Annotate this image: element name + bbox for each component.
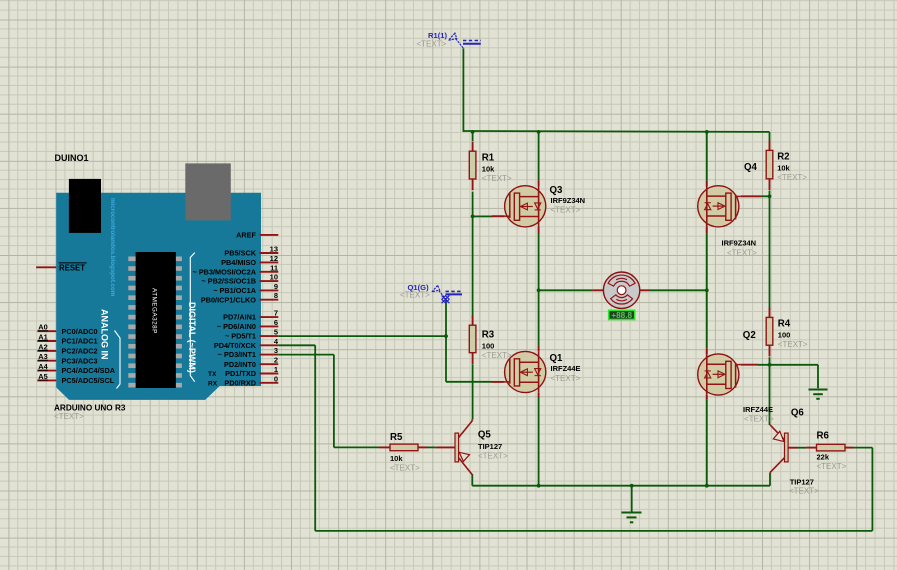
junction <box>768 194 772 198</box>
svg-text:<TEXT>: <TEXT> <box>478 451 508 460</box>
motor rpm display +88.8 <box>609 310 635 320</box>
svg-text:10k: 10k <box>777 164 790 173</box>
label Q6 value <box>790 477 814 486</box>
svg-text:PB4/MISO: PB4/MISO <box>221 258 256 267</box>
svg-text:A4: A4 <box>38 362 48 371</box>
label Q1 <box>550 353 564 364</box>
svg-text:11: 11 <box>270 263 278 272</box>
ground bottom <box>622 513 642 523</box>
svg-text:22k: 22k <box>817 453 830 462</box>
wire R3 bottom to Q5 collector <box>472 364 474 419</box>
svg-text:PC2/ADC2: PC2/ADC2 <box>62 347 98 356</box>
svg-text:<TEXT>: <TEXT> <box>727 249 757 258</box>
svg-text:<TEXT>: <TEXT> <box>54 412 84 421</box>
svg-text:R1: R1 <box>482 153 495 164</box>
arduino pin 4 PD4/T0/XCK <box>214 337 279 350</box>
resistor R2 10k <box>766 141 807 190</box>
svg-text:13: 13 <box>270 245 278 254</box>
junction <box>705 288 709 292</box>
junction <box>537 130 541 134</box>
svg-text:R2: R2 <box>777 152 789 163</box>
junction <box>705 130 709 134</box>
label arduino <TEXT> <box>54 412 84 421</box>
svg-text:R6: R6 <box>817 431 830 442</box>
junction <box>630 484 634 488</box>
wire pin4 wire <box>278 344 315 346</box>
svg-text:10: 10 <box>270 273 278 282</box>
svg-text:<TEXT>: <TEXT> <box>789 487 819 496</box>
arduino pin 2 PD2/INT0 <box>224 356 278 369</box>
svg-text:<TEXT>: <TEXT> <box>551 374 581 383</box>
arduino pin AREF AREF <box>236 231 278 240</box>
wire motor rail right <box>650 289 707 291</box>
junction <box>471 215 475 219</box>
svg-text:A0: A0 <box>38 323 47 332</box>
wire Q4 gate to R2 line <box>761 195 770 197</box>
arduino pin A4 PC4/ADC4/SDA <box>37 362 115 375</box>
svg-text:A1: A1 <box>38 332 47 341</box>
label Q1 <TEXT> <box>551 374 581 383</box>
arduino pin 10 ~ PB2/SS/OC1B <box>201 273 278 286</box>
svg-text:ATMEGA328P: ATMEGA328P <box>151 288 158 334</box>
svg-text:~ PB1/OC1A: ~ PB1/OC1A <box>213 286 257 295</box>
svg-text:<TEXT>: <TEXT> <box>778 340 808 349</box>
svg-text:<TEXT>: <TEXT> <box>400 290 430 299</box>
svg-text:10k: 10k <box>482 165 495 174</box>
svg-text:R5: R5 <box>390 432 403 443</box>
arduino digital bracket <box>190 253 195 382</box>
wire top rail <box>463 130 769 133</box>
arduino pin 3 ~ PD3/INT1 <box>218 346 279 359</box>
arduino power jack <box>69 179 101 233</box>
wire motor rail down to Q2 <box>706 290 708 348</box>
wire gate wire to ground <box>817 365 819 388</box>
label Q1 value <box>551 364 581 373</box>
probe Q1(G) <box>432 285 462 303</box>
arduino pin 0 PD0/RXD <box>224 374 278 387</box>
svg-text:R3: R3 <box>482 330 495 341</box>
svg-text:DUINO1: DUINO1 <box>55 153 89 163</box>
label Q4 <box>744 162 758 173</box>
svg-text:Q6: Q6 <box>791 408 805 419</box>
wire Q3 gate wire <box>473 215 492 217</box>
arduino TX label <box>208 371 217 378</box>
wire rail to Q4 drain <box>706 132 708 181</box>
svg-text:~ PD5/T1: ~ PD5/T1 <box>225 332 256 341</box>
label Q2 value <box>743 405 773 414</box>
svg-text:8: 8 <box>274 291 278 300</box>
resistor R1 10k <box>469 142 512 191</box>
wire motor rail down to Q1 <box>538 290 540 345</box>
wire pin4 drop <box>314 345 316 531</box>
junction <box>444 334 448 338</box>
label Q2 <TEXT> <box>744 414 774 423</box>
svg-text:DIGITAL (~PWM): DIGITAL (~PWM) <box>187 302 197 373</box>
junction <box>705 484 709 488</box>
wire Q6 emitter to rail <box>769 473 771 486</box>
mosfet Q4 IRF9Z34N <box>698 181 761 234</box>
wire R5 to Q5 base <box>427 446 435 448</box>
arduino RX label <box>208 381 218 388</box>
svg-text:TIP127: TIP127 <box>790 477 814 486</box>
svg-text:Q1: Q1 <box>550 353 564 364</box>
svg-text:PB5/SCK: PB5/SCK <box>224 249 256 258</box>
label Q6 <TEXT> <box>789 487 819 496</box>
arduino pin RESET <box>36 263 87 272</box>
wire probe Q1G vertical <box>445 299 447 382</box>
svg-text:PB0/ICP1/CLKO: PB0/ICP1/CLKO <box>201 295 256 304</box>
label Q3 <TEXT> <box>551 206 581 215</box>
svg-text:PD2/INT0: PD2/INT0 <box>224 360 256 369</box>
svg-text:100: 100 <box>778 331 791 340</box>
svg-text:AREF: AREF <box>236 231 256 240</box>
label probe Q1(G) <box>408 283 430 292</box>
svg-text:microcontrolandos.blogspot.com: microcontrolandos.blogspot.com <box>109 198 116 297</box>
svg-text:<TEXT>: <TEXT> <box>551 206 581 215</box>
svg-text:IRFZ44E: IRFZ44E <box>743 405 773 414</box>
wire R6 right wire <box>854 447 872 449</box>
svg-text:TX: TX <box>208 371 217 378</box>
resistor R4 100 <box>766 308 808 357</box>
svg-text:PC5/ADC5/SCL: PC5/ADC5/SCL <box>62 376 115 385</box>
label Q5 value <box>478 442 502 451</box>
svg-text:IRFZ44E: IRFZ44E <box>551 364 581 373</box>
svg-text:12: 12 <box>270 254 278 263</box>
label Q6 <box>791 408 805 419</box>
resistor R3 100 <box>469 316 512 364</box>
svg-text:ANALOG IN: ANALOG IN <box>100 309 110 360</box>
junction <box>471 130 475 134</box>
arduino pin 1 PD1/TXD <box>225 365 278 378</box>
svg-text:5: 5 <box>274 328 278 337</box>
arduino pin A5 PC5/ADC5/SCL <box>37 372 114 385</box>
svg-text:2: 2 <box>274 356 278 365</box>
svg-text:~ PD6/AIN0: ~ PD6/AIN0 <box>217 322 256 331</box>
wire bottom rail <box>472 485 770 487</box>
wire motor rail left <box>539 289 593 291</box>
svg-text:PC3/ADC3: PC3/ADC3 <box>62 356 98 365</box>
arduino analog bracket <box>115 331 121 389</box>
svg-text:Q4: Q4 <box>744 162 758 173</box>
arduino pin 11 ~ PB3/MOSI/OC2A <box>193 263 279 276</box>
arduino pin A2 PC2/ADC2 <box>37 342 97 355</box>
arduino blue url text <box>109 198 116 297</box>
arduino pin 5 ~ PD5/T1 <box>225 328 278 341</box>
mosfet Q1 IRFZ44E <box>491 346 546 398</box>
transistor Q5 TIP127 <box>435 419 472 475</box>
label Q3 value <box>551 196 586 205</box>
svg-text:PD7/AIN1: PD7/AIN1 <box>223 313 256 322</box>
svg-text:A3: A3 <box>38 352 47 361</box>
svg-text:10k: 10k <box>390 454 403 463</box>
junction <box>537 288 541 292</box>
svg-text:~ PB3/MOSI/OC2A: ~ PB3/MOSI/OC2A <box>193 267 257 276</box>
junction <box>768 363 772 367</box>
svg-text:6: 6 <box>274 318 278 327</box>
probe R1(1) <box>449 33 482 48</box>
svg-text:0: 0 <box>274 374 278 383</box>
wire to R5 <box>334 446 380 448</box>
wire pin3 drop <box>333 355 335 448</box>
svg-text:A5: A5 <box>38 372 47 381</box>
arduino pin A3 PC3/ADC3 <box>37 352 97 365</box>
mosfet Q3 IRF9Z34N <box>492 180 546 234</box>
mosfet Q2 IRFZ44E <box>698 348 758 399</box>
svg-text:PD0/RXD: PD0/RXD <box>224 378 256 387</box>
svg-text:<TEXT>: <TEXT> <box>482 174 512 183</box>
arduino ATmega328 chip U1 <box>128 252 182 388</box>
arduino pin 9 ~ PB1/OC1A <box>213 282 278 295</box>
svg-text:<TEXT>: <TEXT> <box>390 464 420 473</box>
arduino pin 6 ~ PD6/AIN0 <box>217 318 278 331</box>
label probe1 <TEXT> <box>417 40 447 49</box>
ground right <box>809 390 828 399</box>
svg-text:Q2: Q2 <box>743 330 756 341</box>
svg-text:PD4/T0/XCK: PD4/T0/XCK <box>214 341 257 350</box>
svg-text:<TEXT>: <TEXT> <box>817 462 847 471</box>
label Q2 <box>743 330 756 341</box>
arduino pin 12 PB4/MISO <box>221 254 278 267</box>
svg-text:R4: R4 <box>778 319 791 330</box>
svg-text:IRF9Z34N: IRF9Z34N <box>722 239 757 248</box>
resistor R5 10k <box>380 432 427 473</box>
wire R2 top lead <box>769 132 771 142</box>
wire Q4 source to motor rail <box>706 233 708 290</box>
wire Q6 base wire <box>797 447 806 449</box>
wire Q1 gate wire <box>446 381 491 383</box>
wire bottom return line <box>315 530 872 532</box>
svg-text:<TEXT>: <TEXT> <box>777 173 807 182</box>
wire pin3 wire <box>278 354 334 356</box>
svg-text:TIP127: TIP127 <box>478 442 502 451</box>
svg-text:~ PB2/SS/OC1B: ~ PB2/SS/OC1B <box>201 277 256 286</box>
label DUINO1 <box>55 153 89 163</box>
label ARDUINO UNO R3 <box>54 404 126 413</box>
label probe R1(1) <box>428 31 447 40</box>
svg-text:~ PD3/INT1: ~ PD3/INT1 <box>218 350 256 359</box>
wire return rise to R6 <box>871 448 873 531</box>
svg-text:Q5: Q5 <box>478 430 492 441</box>
svg-text:1: 1 <box>274 365 278 374</box>
svg-text:A2: A2 <box>38 342 47 351</box>
label Q4 <TEXT> <box>727 249 757 258</box>
arduino usb connector <box>185 163 231 220</box>
svg-text:<TEXT>: <TEXT> <box>482 351 512 360</box>
wire Q2 source down <box>706 400 708 486</box>
wire pin5 wire <box>278 335 446 337</box>
svg-text:PD1/TXD: PD1/TXD <box>225 369 256 378</box>
wire probe drop to top rail <box>462 48 464 132</box>
arduino pin A1 PC1/ADC1 <box>37 332 97 345</box>
junction <box>537 484 541 488</box>
arduino DIGITAL PWM label <box>187 302 197 373</box>
transistor Q6 TIP127 <box>770 425 797 473</box>
label Q5 <TEXT> <box>478 451 508 460</box>
label Q3 <box>550 185 564 196</box>
svg-text:7: 7 <box>274 309 278 318</box>
arduino pin 8 PB0/ICP1/CLKO <box>201 291 278 304</box>
wire Q3 source to motor rail <box>538 234 540 290</box>
svg-text:RESET: RESET <box>59 263 85 272</box>
wire Q2 gate wire <box>758 364 818 366</box>
wire R1 bottom to R3 top <box>472 192 474 318</box>
arduino ANALOG IN label <box>100 309 110 360</box>
wire R1 top lead <box>472 132 474 141</box>
svg-text:3: 3 <box>274 346 278 355</box>
label Q4 value <box>722 239 757 248</box>
wire R2 bottom to R4 top <box>769 191 771 310</box>
arduino pin 7 PD7/AIN1 <box>223 309 278 322</box>
svg-text:<TEXT>: <TEXT> <box>744 414 774 423</box>
svg-text:100: 100 <box>482 342 495 351</box>
svg-text:+88.8: +88.8 <box>611 311 632 320</box>
arduino pin A0 PC0/ADC0 <box>37 323 97 336</box>
wire R4 bottom to Q6 <box>769 357 771 425</box>
wire rail to Q3 drain <box>538 132 540 180</box>
svg-text:PC1/ADC1: PC1/ADC1 <box>62 337 98 346</box>
svg-text:<TEXT>: <TEXT> <box>417 40 447 49</box>
wire ground drop <box>631 486 633 512</box>
arduino pin 13 PB5/SCK <box>224 245 278 258</box>
svg-text:RX: RX <box>208 381 218 388</box>
svg-text:PC4/ADC4/SDA: PC4/ADC4/SDA <box>62 366 116 375</box>
label Q5 <box>478 430 492 441</box>
svg-text:Q3: Q3 <box>550 185 564 196</box>
arduino board DUINO1 body <box>56 193 261 400</box>
wire Q1 source down <box>538 398 540 486</box>
svg-text:IRF9Z34N: IRF9Z34N <box>551 196 586 205</box>
wire Q5 emitter to rail <box>471 474 473 485</box>
motor M1 <box>592 272 649 308</box>
svg-text:9: 9 <box>274 282 278 291</box>
resistor R6 22k <box>806 431 854 472</box>
label probe2 <TEXT> <box>400 290 430 299</box>
svg-text:PC0/ADC0: PC0/ADC0 <box>62 327 98 336</box>
